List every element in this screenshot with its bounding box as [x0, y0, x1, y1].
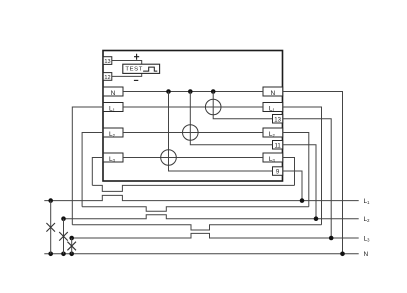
bus N	[44, 253, 358, 255]
device box U1	[103, 51, 283, 182]
svg-text:13: 13	[274, 117, 281, 123]
fuse F1 X	[46, 223, 55, 232]
wire A: L3 link under device	[92, 185, 294, 191]
svg-text:N: N	[270, 90, 275, 97]
CT circle 3 (L3)	[161, 150, 177, 166]
CT circle 2 (L2)	[183, 125, 199, 141]
node on N line 2	[188, 89, 193, 94]
wire left L2 external	[82, 133, 103, 207]
terminal 11 right	[273, 141, 283, 150]
svg-text:L1: L1	[109, 105, 116, 112]
bus L1	[44, 195, 358, 200]
wire right L2 external	[283, 133, 309, 207]
terminal L1 right	[263, 103, 283, 113]
terminal 13 (left top)	[103, 57, 112, 65]
terminal N right	[263, 87, 283, 97]
wire CT drop 1	[169, 92, 273, 172]
wire internal L1	[123, 106, 263, 108]
svg-text:L2: L2	[109, 131, 116, 138]
terminal L3 right	[263, 153, 283, 163]
terminal N left	[103, 87, 123, 97]
wire right L3 external	[283, 158, 295, 186]
svg-text:L2: L2	[269, 131, 276, 138]
fuse F1 wire	[50, 201, 52, 254]
svg-text:L3: L3	[364, 236, 371, 243]
wire right 9 external	[283, 171, 302, 201]
wire left L1 external	[72, 107, 103, 225]
svg-text:12: 12	[104, 75, 110, 81]
terminal 12 (left top)	[103, 73, 112, 82]
svg-text:11: 11	[274, 143, 281, 149]
fuse F2 wire	[63, 219, 65, 254]
wire CT drop 3	[213, 92, 272, 119]
node bus L2 start	[61, 216, 66, 221]
bus L3	[72, 233, 359, 238]
terminal 13 right	[273, 115, 283, 124]
CT circle 1 (L1)	[205, 99, 221, 115]
node on N line 1	[166, 89, 171, 94]
svg-text:L3: L3	[269, 156, 276, 163]
node bus L1 / 9	[300, 198, 305, 203]
terminal L3 left	[103, 153, 123, 163]
fuse F3 X	[67, 242, 76, 251]
node on N line 3	[211, 89, 216, 94]
svg-text:L1: L1	[269, 105, 276, 112]
fuse F3 wire	[71, 238, 73, 254]
svg-text:TEST: TEST	[125, 67, 142, 73]
plus sign	[134, 54, 139, 60]
wire right L1 external	[283, 107, 322, 225]
svg-text:L2: L2	[364, 216, 371, 223]
svg-text:13: 13	[104, 59, 110, 65]
svg-text:N: N	[364, 251, 369, 258]
svg-text:L3: L3	[109, 156, 116, 163]
node bus N f1	[48, 252, 53, 257]
wire internal N	[123, 91, 263, 93]
wire S: L1 link	[72, 225, 321, 230]
wire CT drop 2	[190, 92, 272, 145]
wire left L3 external	[92, 158, 103, 186]
node bus L3 start	[69, 236, 74, 241]
svg-text:L1: L1	[364, 198, 371, 205]
terminal 9 right	[273, 167, 283, 176]
node bus N f2	[61, 252, 66, 257]
TEST box	[123, 64, 160, 73]
node bus N right	[340, 252, 345, 257]
minus sign	[134, 79, 138, 81]
node bus L2 / 11	[314, 216, 319, 221]
node bus L3 / 13	[329, 236, 334, 241]
terminal L2 right	[263, 128, 283, 138]
wire internal L2	[123, 132, 263, 134]
wire 12 to TEST	[112, 73, 142, 76]
wire right N external	[283, 92, 343, 254]
node bus N f3	[69, 252, 74, 257]
terminal L2 left	[103, 128, 123, 138]
wire right 11 external	[283, 145, 316, 219]
wire internal L3	[123, 157, 263, 159]
bus L2	[64, 215, 359, 219]
svg-text:N: N	[111, 90, 116, 97]
node bus L1 fuse	[48, 198, 53, 203]
wire 13 to TEST	[112, 61, 142, 65]
wire Q: L2 link	[82, 207, 309, 211]
wire right 13 external	[283, 119, 332, 238]
fuse F2 X	[59, 232, 68, 241]
terminal L1 left	[103, 103, 123, 113]
